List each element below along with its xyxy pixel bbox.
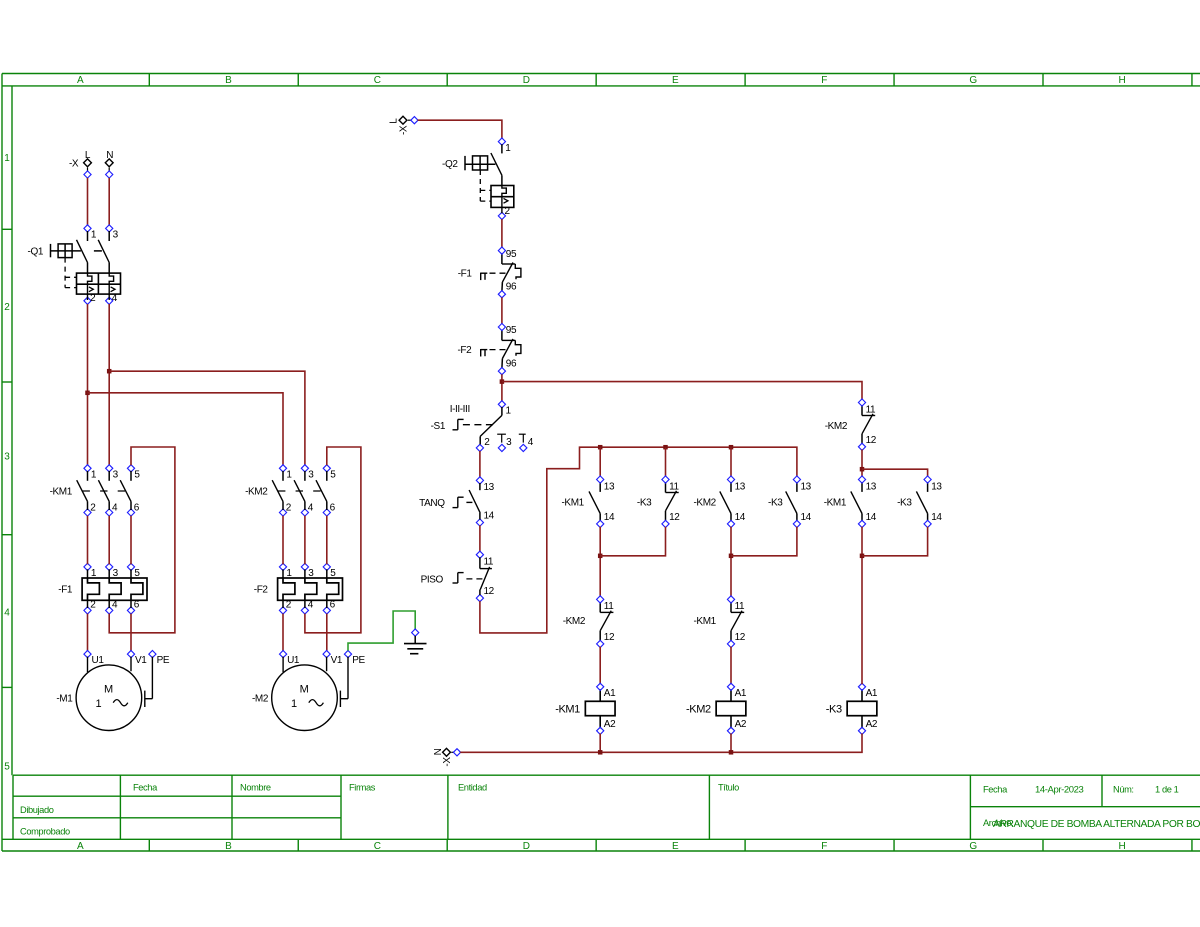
svg-text:1: 1 xyxy=(291,698,297,710)
svg-text:1 de 1: 1 de 1 xyxy=(1155,785,1179,795)
svg-text:5: 5 xyxy=(134,568,140,579)
svg-text:3: 3 xyxy=(113,470,119,481)
svg-text:6: 6 xyxy=(330,503,336,514)
svg-text:12: 12 xyxy=(484,586,495,597)
wire KM2 pin4 to F2 pin3 xyxy=(304,516,306,565)
svg-text:Dibujado: Dibujado xyxy=(20,805,54,815)
node junction below KM1 NO (K3 branch) xyxy=(860,554,865,559)
svg-text:1: 1 xyxy=(91,568,97,579)
svg-text:B: B xyxy=(225,75,232,86)
selector switch S1 xyxy=(431,401,534,452)
coil K3 xyxy=(826,683,878,734)
svg-text:Nombre: Nombre xyxy=(240,782,271,792)
svg-text:13: 13 xyxy=(604,481,615,492)
wire K3 NO 14 to junction xyxy=(731,527,797,556)
svg-text:PE: PE xyxy=(352,655,365,666)
node bus junction coil KM1 xyxy=(598,750,603,755)
interlock contact KM2 NC (K3 branch) xyxy=(825,399,877,451)
svg-text:-KM2: -KM2 xyxy=(825,421,848,432)
svg-text:F: F xyxy=(821,75,827,86)
node junction below KM2 NO xyxy=(729,554,734,559)
title block xyxy=(13,775,1200,839)
svg-text:-K3: -K3 xyxy=(637,497,652,508)
svg-text:2: 2 xyxy=(484,437,490,448)
wire F1 96 to F2 95 xyxy=(501,297,503,324)
node bus junction K3 NC branch xyxy=(663,445,668,450)
wire N junction to KM2 pin 3 xyxy=(109,371,305,465)
svg-text:2: 2 xyxy=(90,600,96,611)
svg-text:-KM1: -KM1 xyxy=(50,486,73,497)
wire PISO 12 to control bus xyxy=(480,447,797,633)
wire control feed to Q2 pin 1 xyxy=(418,120,502,138)
svg-text:11: 11 xyxy=(866,404,876,415)
svg-text:F: F xyxy=(821,841,827,852)
wire junction to KM2 NC branch (right) xyxy=(502,382,862,400)
wire F2 96 down to S1 and junction xyxy=(501,374,503,401)
wire coil KM2 A2 to bus xyxy=(730,733,732,752)
svg-text:12: 12 xyxy=(669,512,680,523)
svg-text:E: E xyxy=(672,841,679,852)
svg-text:M: M xyxy=(300,683,309,695)
interlock contact KM2 NC xyxy=(563,596,615,648)
svg-text:Comprobado: Comprobado xyxy=(20,827,70,837)
svg-text:V1: V1 xyxy=(331,655,343,666)
svg-text:H: H xyxy=(1119,841,1126,852)
svg-text:A1: A1 xyxy=(604,688,616,699)
svg-text:-KM2: -KM2 xyxy=(245,486,268,497)
svg-text:Fecha: Fecha xyxy=(133,782,158,792)
svg-text:6: 6 xyxy=(134,600,140,611)
thermal relay F1 xyxy=(58,563,147,614)
ground wire from M2 PE xyxy=(348,611,415,651)
svg-text:PE: PE xyxy=(157,655,170,666)
svg-text:5: 5 xyxy=(330,568,336,579)
wire KM2 pin2 to F2 pin1 xyxy=(282,516,284,565)
svg-text:1: 1 xyxy=(286,568,292,579)
node N feed junction xyxy=(107,369,112,374)
wire bus to K3 NC 11 xyxy=(665,447,667,476)
thermal relay F2 xyxy=(254,563,343,614)
svg-text:4: 4 xyxy=(112,600,118,611)
svg-text:14: 14 xyxy=(484,511,495,522)
svg-text:ARRANQUE DE BOMBA ALTERNADA P: ARRANQUE DE BOMBA ALTERNADA POR BOYA xyxy=(993,819,1200,830)
svg-text:1: 1 xyxy=(4,153,10,164)
svg-text:-KM1: -KM1 xyxy=(694,616,717,627)
svg-text:5: 5 xyxy=(330,470,336,481)
motor M1 xyxy=(56,651,170,731)
svg-text:-X: -X xyxy=(399,125,410,135)
svg-text:-M1: -M1 xyxy=(56,694,73,705)
wire L terminal to Q1 pin 1 xyxy=(87,178,89,225)
thermal contact F2 95-96 xyxy=(457,323,520,374)
node bus junction KM1 branch xyxy=(598,445,603,450)
wire KM2 pin6 to F2 pin5 xyxy=(326,516,328,565)
wire L junction to KM2 pin 1 xyxy=(88,393,284,465)
svg-text:4: 4 xyxy=(112,503,118,514)
svg-text:2: 2 xyxy=(286,503,292,514)
wire bottom return bus xyxy=(460,733,862,752)
coil KM1 xyxy=(555,683,616,734)
svg-text:2: 2 xyxy=(4,302,10,313)
node L feed junction xyxy=(85,391,90,396)
svg-text:U1: U1 xyxy=(92,655,105,666)
wire KM1 pin4 to F1 pin3 xyxy=(108,516,110,565)
svg-text:14: 14 xyxy=(801,512,812,523)
float switch PISO xyxy=(421,551,495,602)
svg-text:5: 5 xyxy=(4,762,10,773)
svg-text:14: 14 xyxy=(931,512,942,523)
svg-text:95: 95 xyxy=(506,249,517,260)
svg-text:1: 1 xyxy=(286,470,292,481)
svg-text:-F1: -F1 xyxy=(58,585,73,596)
node bus junction coil KM2 xyxy=(729,750,734,755)
circuit breaker Q2 xyxy=(442,138,514,220)
wire TANQ 14 to PISO 11 xyxy=(479,525,481,552)
auxiliary contact KM2 NO (seal-in) xyxy=(694,476,746,528)
svg-text:Fecha: Fecha xyxy=(983,785,1008,795)
svg-text:-KM1: -KM1 xyxy=(562,497,585,508)
svg-text:A2: A2 xyxy=(604,719,616,730)
wire F1 pin6 to motor M1 V1 xyxy=(130,614,132,651)
svg-text:-Q1: -Q1 xyxy=(28,247,44,258)
circuit breaker Q1 xyxy=(28,225,121,305)
svg-text:12: 12 xyxy=(604,632,615,643)
auxiliary contact K3 NO xyxy=(768,476,812,528)
svg-text:A1: A1 xyxy=(735,688,747,699)
wire Q1 pin 2 to KM1 pin 1 xyxy=(87,304,89,465)
svg-text:H: H xyxy=(1119,75,1126,86)
svg-text:A: A xyxy=(77,841,84,852)
svg-text:95: 95 xyxy=(506,325,517,336)
svg-text:A2: A2 xyxy=(866,719,878,730)
svg-text:13: 13 xyxy=(735,481,746,492)
wire F2 pin6 to motor M2 V1 xyxy=(326,614,328,651)
thermal contact F1 95-96 xyxy=(458,247,521,298)
contactor KM2 main contacts xyxy=(245,465,336,516)
svg-text:-M2: -M2 xyxy=(252,694,269,705)
svg-text:3: 3 xyxy=(308,470,314,481)
wire bus to KM2 NO 13 xyxy=(730,447,732,476)
svg-text:L: L xyxy=(389,118,400,124)
wire KM1 14 down to coil K3 A1 xyxy=(861,527,863,685)
svg-text:3: 3 xyxy=(308,568,314,579)
svg-text:6: 6 xyxy=(330,600,336,611)
node bus junction KM2 branch xyxy=(729,445,734,450)
wire KM2 NC 12 to junction xyxy=(861,449,863,476)
svg-text:4: 4 xyxy=(528,437,534,448)
ground symbol xyxy=(404,629,427,654)
svg-text:C: C xyxy=(374,841,381,852)
svg-text:3: 3 xyxy=(113,568,119,579)
svg-text:4: 4 xyxy=(308,503,314,514)
svg-text:14: 14 xyxy=(604,512,615,523)
wire bus to KM1 NO 13 xyxy=(599,447,601,476)
svg-text:TANQ: TANQ xyxy=(419,498,445,509)
wire S1 pin2 to TANQ 13 xyxy=(479,451,481,478)
wire KM1 pin2 to F1 pin1 xyxy=(87,516,89,565)
svg-text:3: 3 xyxy=(113,230,119,241)
svg-text:6: 6 xyxy=(134,503,140,514)
svg-text:A1: A1 xyxy=(866,688,878,699)
svg-text:11: 11 xyxy=(669,481,679,492)
svg-text:PISO: PISO xyxy=(421,575,444,586)
svg-text:U1: U1 xyxy=(287,655,300,666)
wire F1 pin2 to motor M1 U1 xyxy=(87,614,89,651)
svg-text:13: 13 xyxy=(931,481,942,492)
svg-text:-KM2: -KM2 xyxy=(686,703,711,715)
svg-text:1: 1 xyxy=(91,470,97,481)
svg-text:C: C xyxy=(374,75,381,86)
float switch TANQ xyxy=(419,477,494,526)
wire KM1 pin6 to F1 pin5 xyxy=(130,516,132,565)
svg-text:-K3: -K3 xyxy=(768,497,783,508)
svg-text:5: 5 xyxy=(134,470,140,481)
svg-text:-F2: -F2 xyxy=(457,345,472,356)
svg-text:12: 12 xyxy=(735,632,746,643)
svg-text:3: 3 xyxy=(506,437,512,448)
svg-text:1: 1 xyxy=(91,230,97,241)
svg-text:-F1: -F1 xyxy=(458,268,473,279)
auxiliary contact K3 NO (K3 branch) xyxy=(897,476,942,528)
svg-text:-KM1: -KM1 xyxy=(824,497,847,508)
svg-text:I-II-III: I-II-III xyxy=(450,404,470,415)
svg-text:-S1: -S1 xyxy=(431,421,446,432)
svg-text:G: G xyxy=(969,841,977,852)
svg-text:1: 1 xyxy=(95,698,101,710)
auxiliary contact K3 NC xyxy=(637,476,680,528)
svg-text:Firmas: Firmas xyxy=(349,782,376,792)
wire coil KM1 A2 to bus xyxy=(599,733,601,752)
svg-text:3: 3 xyxy=(4,452,10,463)
svg-text:13: 13 xyxy=(866,481,877,492)
svg-text:11: 11 xyxy=(604,601,614,612)
auxiliary contact KM1 NO (seal-in) xyxy=(562,476,615,528)
svg-text:-KM2: -KM2 xyxy=(563,616,586,627)
coil KM2 xyxy=(686,683,747,734)
svg-text:D: D xyxy=(523,841,530,852)
svg-text:-K3: -K3 xyxy=(826,703,842,715)
terminal -X pin N (control return) xyxy=(433,748,461,766)
node junction below KM1 NO xyxy=(598,554,603,559)
wire F2 pin2 to motor M2 U1 xyxy=(282,614,284,651)
svg-text:12: 12 xyxy=(866,435,877,446)
svg-text:-F2: -F2 xyxy=(254,585,269,596)
svg-text:14-Apr-2023: 14-Apr-2023 xyxy=(1035,785,1084,796)
node control bus junction xyxy=(500,379,505,384)
svg-text:E: E xyxy=(672,75,679,86)
wire KM1 14 to junction xyxy=(599,527,601,597)
wire KM2 NC 12 to coil KM1 A1 xyxy=(599,647,601,685)
wire N terminal to Q1 pin 3 xyxy=(108,178,110,225)
svg-text:M: M xyxy=(104,683,113,695)
svg-text:11: 11 xyxy=(735,601,745,612)
wire K3 NO 14 to junction (K3 branch) xyxy=(862,527,928,556)
wire Q2 pin2 to F1 contact 95 xyxy=(501,219,503,247)
wire junction to K3 NO 13 (right) xyxy=(862,469,928,476)
wire KM1 NC 12 to coil KM2 A1 xyxy=(730,647,732,685)
auxiliary contact KM1 NO (K3 branch) xyxy=(824,476,877,528)
terminal -X pin L xyxy=(69,150,91,178)
svg-text:96: 96 xyxy=(506,359,517,370)
svg-text:1: 1 xyxy=(506,406,512,417)
svg-text:Título: Título xyxy=(718,782,739,792)
wire K3 12 to junction xyxy=(600,527,665,556)
svg-text:2: 2 xyxy=(286,600,292,611)
contactor KM1 main contacts xyxy=(50,465,141,516)
svg-text:14: 14 xyxy=(735,512,746,523)
motor M2 xyxy=(252,651,366,731)
svg-text:-KM2: -KM2 xyxy=(694,497,717,508)
wire F1 pin4 loop to KM1 pin 5 xyxy=(109,447,175,633)
wire F2 pin4 loop to KM2 pin 5 xyxy=(305,447,361,633)
svg-text:Núm:: Núm: xyxy=(1113,785,1134,795)
svg-text:G: G xyxy=(969,75,977,86)
svg-text:A2: A2 xyxy=(735,719,747,730)
node junction K3 branch top xyxy=(860,467,865,472)
svg-text:11: 11 xyxy=(484,556,494,567)
terminal -X pin N xyxy=(105,150,113,178)
svg-text:4: 4 xyxy=(308,600,314,611)
svg-text:2: 2 xyxy=(90,503,96,514)
svg-text:-X: -X xyxy=(442,757,453,767)
svg-text:A: A xyxy=(77,75,84,86)
svg-text:-K3: -K3 xyxy=(897,497,912,508)
svg-text:Entidad: Entidad xyxy=(458,782,487,792)
terminal -X pin L (control feed) xyxy=(389,116,418,135)
svg-text:4: 4 xyxy=(4,608,10,619)
svg-text:V1: V1 xyxy=(135,655,147,666)
svg-text:13: 13 xyxy=(484,482,495,493)
svg-text:-X: -X xyxy=(69,159,79,170)
wire KM2 14 to junction xyxy=(730,527,732,597)
svg-text:14: 14 xyxy=(866,512,877,523)
svg-text:96: 96 xyxy=(506,282,517,293)
svg-text:D: D xyxy=(523,75,530,86)
interlock contact KM1 NC xyxy=(694,596,746,648)
svg-text:B: B xyxy=(225,841,232,852)
wire Q1 pin 4 to KM1 pin 3 xyxy=(108,304,110,465)
svg-text:-Q2: -Q2 xyxy=(442,159,458,170)
svg-text:1: 1 xyxy=(505,143,511,154)
svg-text:13: 13 xyxy=(801,481,812,492)
svg-text:-KM1: -KM1 xyxy=(555,703,580,715)
